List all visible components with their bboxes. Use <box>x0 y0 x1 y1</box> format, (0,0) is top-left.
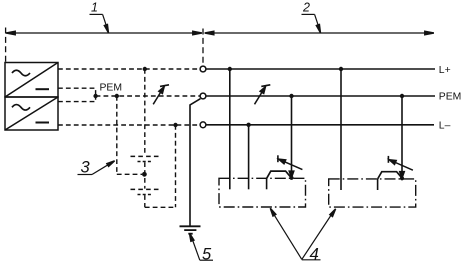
load equipment 1 (chain outline) <box>219 178 306 207</box>
terminal L- <box>200 122 206 128</box>
label 3 leader <box>78 174 93 176</box>
node PEM tap <box>115 94 119 98</box>
label 2 leader <box>302 13 315 15</box>
wire drop PEM to load 2 <box>401 96 403 172</box>
wire L- feed (dashed) <box>58 124 200 126</box>
disconnect-device arrow on PEM bus <box>255 85 271 105</box>
svg-text:L+: L+ <box>439 65 451 76</box>
svg-text:2: 2 <box>302 1 310 15</box>
wire bottom horizontal (dashed) <box>145 206 176 208</box>
node <box>142 172 147 177</box>
wire L- to link chain (dashed) <box>175 125 177 207</box>
svg-text:3: 3 <box>81 158 91 176</box>
label 1 leader <box>90 13 103 15</box>
wire PEM to link chain (dashed) <box>116 96 118 174</box>
node <box>246 123 250 127</box>
wire link chain horizontal (dashed) <box>117 173 142 175</box>
node PEM merge <box>93 94 97 98</box>
svg-text:L–: L– <box>439 120 451 131</box>
node <box>228 67 232 71</box>
wire drop PEM to load 1 <box>291 96 293 172</box>
protective bonding stub load 1 <box>266 178 268 189</box>
earthing conductor <box>190 99 200 226</box>
boundary axis left <box>5 28 7 63</box>
node <box>339 67 343 71</box>
converter U2 (AC/DC) <box>5 97 58 130</box>
bus PEM <box>206 95 435 97</box>
wire L+ feed (dashed) <box>58 68 200 70</box>
boundary axis right <box>202 29 204 66</box>
label 5 leader <box>192 239 200 260</box>
svg-text:1: 1 <box>91 1 98 15</box>
removable link 1 <box>131 156 159 161</box>
node <box>400 94 404 98</box>
wire drop L- to load 1 <box>248 125 250 190</box>
wire U1 minus output <box>58 88 96 94</box>
disconnect arrow load 1 <box>278 155 303 169</box>
node L+ tap <box>143 67 147 71</box>
load equipment 2 (chain outline) <box>329 179 416 207</box>
disconnect-device arrow on PEM feed <box>153 85 169 105</box>
dimension line 1 <box>6 32 202 34</box>
protective bonding bridge load 1 <box>267 171 291 178</box>
removable link 2 <box>131 189 159 194</box>
node <box>289 176 293 180</box>
node L- tap <box>173 123 177 127</box>
wire drop L+ to load 2 <box>340 69 342 190</box>
disconnect arrow load 2 <box>388 156 413 170</box>
wire link2 down (dashed) <box>144 195 146 207</box>
label 4 leader to load 1 <box>274 214 302 259</box>
terminal L+ <box>200 66 206 72</box>
node <box>400 176 404 180</box>
wire U2 plus output <box>58 97 96 101</box>
wire L+ to link 1 (dashed) <box>144 69 146 156</box>
bus L+ <box>206 68 435 70</box>
wire drop L+ to load 1 <box>229 69 231 189</box>
dimension line 2 <box>205 32 434 34</box>
svg-text:PEM: PEM <box>100 83 123 94</box>
wire PEM feed (dashed) <box>96 95 201 97</box>
ground electrode symbol <box>180 226 201 233</box>
svg-text:4: 4 <box>310 244 319 263</box>
svg-text:5: 5 <box>202 246 212 264</box>
node <box>289 94 293 98</box>
svg-text:PEM: PEM <box>439 92 462 103</box>
bus L- <box>206 124 434 126</box>
terminal PEM <box>200 93 206 99</box>
protective bonding bridge load 2 <box>378 172 402 179</box>
protective bonding stub load 2 <box>377 179 379 190</box>
converter U1 (AC/DC) <box>5 63 58 98</box>
wire link1 to link2 (dashed) <box>144 162 146 188</box>
label 4 leader to load 2 <box>302 212 334 260</box>
